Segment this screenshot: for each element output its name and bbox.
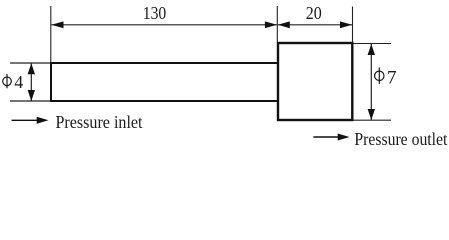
tube body (small pipe 130 long) (51, 63, 278, 101)
phi7 extension line bottom (354, 119, 392, 121)
phi7 dimension line with arrows (368, 44, 375, 120)
dimension line 130 (52, 21, 278, 28)
svg-text:Pressure outlet: Pressure outlet (354, 129, 447, 148)
label Pressure inlet (56, 112, 143, 132)
svg-text:20: 20 (306, 3, 322, 23)
pressure inlet arrow (12, 117, 49, 124)
label phi 4 (3, 72, 24, 92)
dimension line 20 (278, 21, 352, 28)
svg-text:Pressure inlet: Pressure inlet (56, 112, 143, 132)
phi4 dimension line with arrows (28, 63, 35, 101)
extension line right (x=352.5) (352, 7, 354, 43)
extension line left (x=50.8) (50, 6, 52, 62)
pressure outlet arrow (313, 134, 349, 141)
phi7 extension line top (354, 43, 392, 45)
label 130 (143, 3, 167, 23)
outlet block (large section 20 long) (278, 43, 352, 120)
phi4 extension line top (10, 62, 50, 64)
svg-text:130: 130 (143, 3, 167, 23)
label 20 (306, 3, 322, 23)
svg-text:4: 4 (14, 72, 23, 92)
svg-text:7: 7 (387, 67, 397, 88)
phi4 extension line bottom (10, 100, 50, 102)
extension line middle (x=277.3) (276, 6, 278, 42)
label phi 7 (375, 67, 397, 88)
label Pressure outlet (354, 129, 447, 149)
